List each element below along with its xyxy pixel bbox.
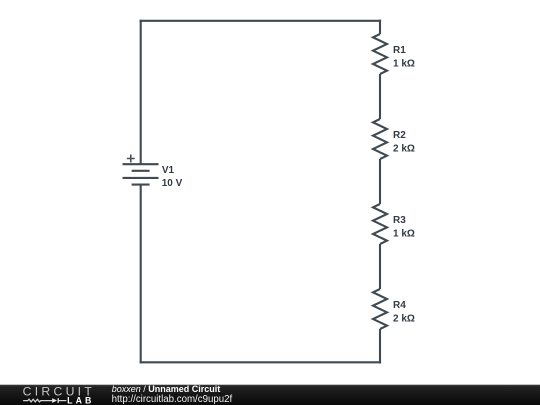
wire: right segment top (to R1) <box>379 20 381 34</box>
svg-text:R1: R1 <box>393 45 406 56</box>
wire: left upper (V1 + terminal) <box>140 20 142 165</box>
battery V1 plus sign <box>127 155 135 163</box>
svg-text:http://circuitlab.com/c9upu2f: http://circuitlab.com/c9upu2f <box>112 394 233 405</box>
wire: node between R1 and R2 <box>379 74 381 119</box>
battery V1 plate 1 (long, +) <box>123 163 159 165</box>
svg-text:boxxen / Unnamed Circuit: boxxen / Unnamed Circuit <box>112 384 221 394</box>
battery V1 plate 3 (long) <box>123 177 159 179</box>
svg-text:2 kΩ: 2 kΩ <box>393 314 415 325</box>
svg-text:R4: R4 <box>393 300 406 311</box>
svg-text:LAB: LAB <box>67 395 94 405</box>
svg-text:V1: V1 <box>162 165 175 176</box>
battery V1 plate 4 (short) <box>132 184 150 186</box>
svg-text:2 kΩ: 2 kΩ <box>393 144 415 155</box>
wire: right segment bottom (R4 to bottom net) <box>379 329 381 363</box>
wire: top net from V1+ to R1 <box>140 20 382 22</box>
svg-text:1 kΩ: 1 kΩ <box>393 229 415 240</box>
battery V1 plate 2 (short) <box>132 170 150 172</box>
resistor R1 body <box>373 34 387 74</box>
CircuitLab logo resistor symbol (zigzag) <box>23 399 66 402</box>
svg-text:1 kΩ: 1 kΩ <box>393 59 415 70</box>
wire: node between R3 and R4 <box>379 244 381 289</box>
resistor R4 body <box>373 289 387 329</box>
svg-text:R3: R3 <box>393 215 406 226</box>
wire: bottom net <box>140 361 382 363</box>
resistor R2 body <box>373 119 387 159</box>
svg-text:R2: R2 <box>393 130 406 141</box>
wire: node between R2 and R3 <box>379 159 381 204</box>
resistor R3 body <box>373 204 387 244</box>
CircuitLab logo diode symbol <box>52 398 57 403</box>
svg-text:10 V: 10 V <box>162 178 183 189</box>
wire: left lower (V1 - terminal) <box>140 185 142 364</box>
